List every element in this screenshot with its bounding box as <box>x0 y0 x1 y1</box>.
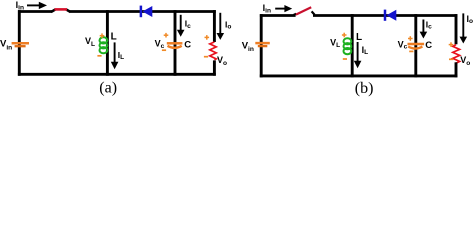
current arrow Iin (b) <box>275 5 292 12</box>
wire (b) capacitor branch <box>414 14 417 77</box>
svg-text:(b): (b) <box>355 80 374 97</box>
label + output (a) <box>205 35 210 40</box>
current arrow IL (b) <box>354 42 362 68</box>
label + inductor (a) <box>100 33 105 38</box>
switch S1 closed (a) <box>51 9 71 12</box>
wire (b) left <box>260 14 263 77</box>
current arrow Iin (a) <box>27 2 47 9</box>
battery Vin (b) <box>255 43 269 46</box>
wire (a) bottom rail <box>18 73 216 76</box>
current arrow Ic (b) <box>420 20 428 39</box>
label - capacitor (b) <box>409 50 413 52</box>
svg-text:L: L <box>111 32 117 43</box>
label + output (b) <box>449 42 454 47</box>
current arrow Io (a) <box>217 13 225 40</box>
label + capacitor (b) <box>408 36 413 41</box>
capacitor C1 (b) <box>408 44 425 49</box>
svg-text:C: C <box>425 40 432 51</box>
switch S1 open (b) <box>294 7 315 15</box>
label - output (b) <box>449 58 453 60</box>
label - output (a) <box>204 56 208 58</box>
wire (b) inductor branch <box>351 14 354 77</box>
label - capacitor (a) <box>162 49 166 51</box>
diode D1 (b) <box>385 10 396 21</box>
wire (a) top rail left <box>18 10 52 13</box>
svg-text:L: L <box>356 32 362 43</box>
svg-text:(a): (a) <box>99 80 117 97</box>
current arrow IL (a) <box>111 42 119 69</box>
wire (b) top rail right <box>313 14 457 17</box>
battery Vin (a) <box>12 43 29 46</box>
wire (a) left <box>18 10 21 76</box>
inductor L1 (b) <box>344 38 352 54</box>
label + capacitor (a) <box>164 33 169 38</box>
wire (b) bottom rail <box>260 74 458 77</box>
wire (a) top rail right <box>70 10 216 13</box>
resistor R1 (b) <box>453 45 460 64</box>
wire (a) right upper <box>213 10 216 42</box>
svg-text:C: C <box>184 40 191 51</box>
label - inductor (a) <box>97 55 101 57</box>
wire (b) right lower <box>455 62 458 77</box>
capacitor C1 (a) <box>167 43 183 48</box>
wire (a) inductor branch <box>106 10 109 76</box>
diode D1 (a) <box>141 6 152 18</box>
wire (b) right upper <box>455 14 458 44</box>
wire (b) top rail left <box>260 14 296 17</box>
resistor R1 (a) <box>210 42 216 60</box>
label - inductor (b) <box>343 58 347 60</box>
inductor L1 (a) <box>100 37 108 53</box>
wire (a) right lower <box>213 60 216 75</box>
current arrow Io (b) <box>460 13 468 43</box>
label + inductor (b) <box>342 33 347 38</box>
current arrow Ic (a) <box>177 15 185 37</box>
wire (a) capacitor branch <box>174 10 177 76</box>
